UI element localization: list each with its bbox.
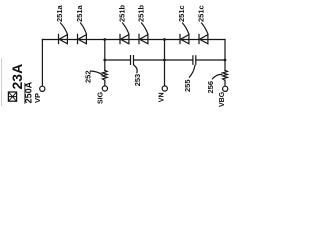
svg-text:251c: 251c xyxy=(177,5,186,22)
wire second bus right of C255 xyxy=(196,59,225,61)
figure number underline xyxy=(24,83,26,104)
wire left drop to VP xyxy=(41,40,43,87)
junction dot mid x105 xyxy=(103,59,106,62)
diode 251a first: triangle xyxy=(59,35,67,44)
wire top bus xyxy=(42,39,225,41)
diode 251c first: triangle xyxy=(181,35,189,44)
wire right drop xyxy=(224,40,226,71)
svg-text:255: 255 xyxy=(183,79,192,92)
scan artifact left edge xyxy=(1,58,3,106)
leader 251c first xyxy=(183,23,190,34)
leader 253 xyxy=(134,65,137,73)
resistor 256 zigzag xyxy=(223,70,228,80)
diode 251a second: triangle xyxy=(78,35,86,44)
terminal circle VN xyxy=(162,86,167,91)
leader 251a second xyxy=(81,23,87,34)
svg-text:251a: 251a xyxy=(55,4,64,22)
leader 251b first xyxy=(123,23,130,34)
svg-text:VBG: VBG xyxy=(219,91,226,107)
svg-text:VP: VP xyxy=(33,93,42,103)
terminal circle VP xyxy=(40,86,45,91)
diode 251b first: bar xyxy=(119,34,121,43)
junction dot top x164 xyxy=(163,38,166,41)
diode 251c second: bar xyxy=(198,34,200,43)
title glyph 図 (box with X) xyxy=(8,92,16,101)
diode 251c second: triangle xyxy=(200,35,208,44)
diode 251a second: bar xyxy=(77,34,79,43)
wire drop at node x164 to VN xyxy=(164,40,166,86)
diode 251a first: bar xyxy=(58,34,60,43)
diode 251c first: bar xyxy=(179,34,181,43)
diode 251b second: triangle xyxy=(140,35,148,44)
leader 256 xyxy=(212,74,221,78)
wire SIG stub xyxy=(104,80,106,86)
terminal circle VBG xyxy=(223,86,228,91)
svg-text:251b: 251b xyxy=(117,4,126,22)
svg-text:253: 253 xyxy=(133,74,142,87)
wire drop at node x105 xyxy=(104,40,106,71)
diode 251b second: bar xyxy=(138,34,140,43)
diode 251b first: triangle xyxy=(121,35,129,44)
wire second bus C253 to C255 xyxy=(134,59,193,61)
wire second bus left of C253 xyxy=(105,59,131,61)
terminal circle SIG xyxy=(102,86,107,91)
wire VBG stub xyxy=(224,80,226,86)
resistor 252 zigzag xyxy=(102,70,107,80)
svg-text:251c: 251c xyxy=(197,5,206,22)
svg-text:256: 256 xyxy=(206,81,215,94)
leader 251b second xyxy=(142,23,149,34)
junction dot top x105 xyxy=(103,38,106,41)
svg-text:SIG: SIG xyxy=(97,91,104,104)
leader 252 xyxy=(91,71,103,75)
leader 251c second xyxy=(202,23,209,34)
leader 255 xyxy=(189,65,195,77)
svg-text:VN: VN xyxy=(158,92,165,102)
svg-text:251b: 251b xyxy=(137,4,146,22)
svg-text:251a: 251a xyxy=(75,4,84,22)
capacitor 253 plates xyxy=(131,56,134,65)
capacitor 255 plates xyxy=(193,56,196,65)
junction dot mid x164 xyxy=(163,59,166,62)
leader 251a first xyxy=(61,23,68,34)
junction dot mid x225 xyxy=(224,59,227,62)
svg-text:252: 252 xyxy=(83,70,92,83)
